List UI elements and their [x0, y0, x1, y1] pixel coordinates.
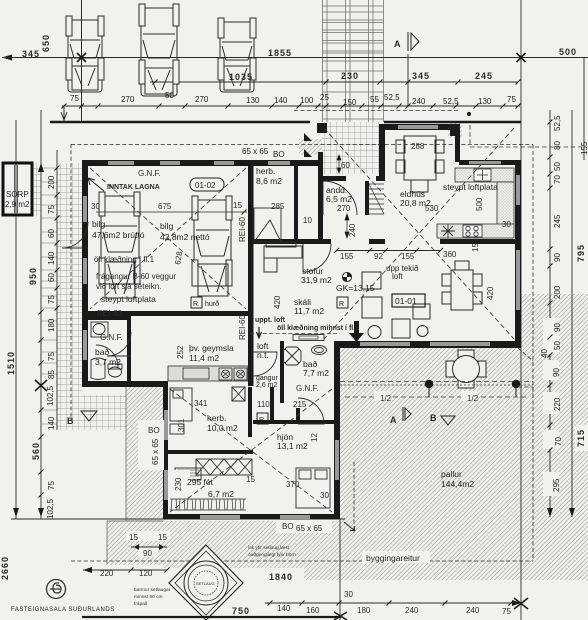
svg-text:G.N.F.: G.N.F.: [296, 384, 319, 393]
svg-text:SETLAUG: SETLAUG: [196, 581, 215, 586]
pergola beam dashed lines on pallur: [340, 382, 533, 398]
bottom dim lines: [82, 616, 341, 618]
GK datum circle icon: [342, 272, 351, 281]
dim line y106: [62, 105, 520, 107]
svg-text:75: 75: [47, 481, 56, 490]
svg-text:bilg: bilg: [92, 219, 106, 229]
svg-text:3,7 m2: 3,7 m2: [95, 357, 121, 367]
svg-text:50: 50: [553, 162, 562, 171]
andd-skali divider: [294, 239, 331, 244]
east wall: [515, 160, 521, 345]
svg-text:65 x 65: 65 x 65: [151, 438, 160, 465]
FS logo: [47, 580, 66, 599]
armchairs + tables right of stofa: [362, 272, 430, 339]
svg-text:REI-60: REI-60: [238, 315, 247, 340]
car 2: [139, 4, 179, 96]
dashed corner SE: [518, 387, 533, 400]
svg-text:R: R: [259, 417, 264, 424]
svg-text:INNTAK LAGNA: INNTAK LAGNA: [107, 184, 160, 191]
porch west wall: [318, 152, 323, 181]
hurd label: [191, 297, 219, 308]
porch south wall: [318, 176, 346, 181]
svg-text:102,5: 102,5: [46, 498, 55, 519]
svg-text:öll klæðning mihnst í fl.2: öll klæðning mihnst í fl.2: [277, 324, 359, 332]
shaft X box: [232, 387, 245, 401]
windows in walls (gray): [83, 125, 520, 519]
svg-text:341: 341: [194, 399, 208, 408]
porch black arrows: [304, 133, 312, 141]
svg-text:288: 288: [411, 142, 425, 151]
svg-text:6,7 m2: 6,7 m2: [208, 489, 234, 499]
svg-text:240: 240: [348, 223, 357, 237]
wall between porch and dining: [379, 124, 385, 181]
diagonal arrow SW pallur corner: [344, 522, 355, 531]
svg-text:öll klæðning í fl.1: öll klæðning í fl.1: [94, 255, 155, 264]
REI-60 firewall: [248, 160, 254, 386]
pergola trellis strip top: [322, 0, 384, 122]
svg-text:lok yfir setlaug,læst: lok yfir setlaug,læst: [248, 545, 290, 551]
dim line y82: [150, 81, 518, 83]
svg-text:65 x 65: 65 x 65: [242, 147, 269, 156]
svg-text:12: 12: [310, 433, 319, 442]
svg-text:15: 15: [246, 475, 255, 484]
svg-text:gangur: gangur: [256, 375, 278, 382]
svg-text:70: 70: [554, 437, 563, 446]
svg-text:bilg: bilg: [160, 221, 174, 231]
svg-text:270: 270: [121, 95, 135, 104]
svg-text:155: 155: [340, 252, 354, 261]
svg-text:13,1 m2: 13,1 m2: [277, 441, 308, 451]
svg-text:252: 252: [176, 345, 185, 359]
svg-text:6,5 m2: 6,5 m2: [326, 194, 352, 204]
arrow down to ground line: [61, 107, 67, 120]
hatch strip left of bedroom block: [126, 387, 167, 521]
svg-text:uppt. loft: uppt. loft: [255, 317, 286, 324]
svg-text:75: 75: [47, 295, 56, 304]
svg-text:60: 60: [47, 229, 56, 238]
svg-text:140: 140: [47, 416, 56, 430]
left site vlines: [15, 120, 17, 519]
svg-text:220: 220: [553, 397, 562, 411]
skali sideboard: [293, 335, 324, 341]
svg-text:R: R: [339, 301, 344, 308]
right edge line x584: [583, 57, 585, 160]
svg-text:1840: 1840: [269, 572, 293, 582]
section dashed vertical x354 bottom: [353, 462, 355, 533]
svg-text:1/2: 1/2: [467, 394, 479, 403]
garage inner dim line: [96, 211, 247, 213]
svg-text:G.N.F.: G.N.F.: [100, 333, 123, 342]
bedroom block interior: [248, 387, 252, 437]
bottom ground line y519: [11, 518, 345, 520]
herb 8.6 closet: [254, 208, 281, 242]
svg-text:hurð: hurð: [205, 300, 219, 308]
svg-text:110: 110: [257, 400, 270, 409]
south wall left (mid block): [82, 381, 168, 387]
svg-text:420: 420: [486, 286, 495, 300]
site line vertical x81: [81, 0, 83, 122]
svg-text:795: 795: [576, 244, 586, 262]
dimension tick marks: [39, 80, 553, 606]
garage car right: [192, 196, 232, 296]
svg-text:270: 270: [337, 204, 351, 213]
svg-text:15: 15: [233, 201, 242, 210]
kitchen window band: [469, 161, 501, 164]
svg-text:230: 230: [174, 477, 183, 491]
svg-text:herb.: herb.: [256, 166, 275, 176]
svg-text:75: 75: [70, 94, 79, 103]
svg-text:FASTEIGNASALA SUÐURLANDS: FASTEIGNASALA SUÐURLANDS: [11, 607, 115, 613]
svg-text:295: 295: [552, 478, 561, 492]
svg-text:barmur setlaugar: barmur setlaugar: [134, 587, 171, 593]
andd west wall: [318, 181, 323, 239]
dashed roof corner NE: [470, 125, 584, 147]
car 3: [218, 18, 256, 92]
svg-text:345: 345: [22, 49, 40, 59]
bath 3.7 fixtures: [91, 322, 122, 380]
dresser herb10: [175, 468, 201, 480]
svg-text:240: 240: [412, 97, 426, 106]
svg-text:140: 140: [274, 96, 288, 105]
svg-text:11,4 m2: 11,4 m2: [189, 353, 219, 363]
svg-text:75: 75: [502, 607, 511, 616]
vertical A-section line x408: [407, 54, 409, 106]
pallur hatch right band: [521, 294, 588, 580]
svg-text:frágangur B-60 veggur: frágangur B-60 veggur: [96, 272, 176, 281]
svg-text:240: 240: [405, 606, 419, 615]
right dim col x550: [549, 110, 551, 517]
svg-text:30: 30: [320, 491, 329, 500]
down arrows at line ends: [13, 163, 575, 606]
svg-text:loft: loft: [392, 272, 403, 281]
svg-text:140: 140: [47, 251, 56, 265]
bottom hatch band under bedrooms: [107, 521, 339, 568]
garage car left: [99, 192, 140, 298]
60 arrow in porch: [337, 155, 341, 173]
svg-text:11,7 m2: 11,7 m2: [294, 306, 324, 316]
svg-text:295 fót: 295 fót: [187, 477, 214, 487]
svg-text:140: 140: [277, 604, 291, 613]
hjon bed: [296, 468, 330, 508]
svg-text:1510: 1510: [6, 351, 16, 375]
vertical line x521 full height: [520, 0, 522, 620]
svg-text:715: 715: [576, 429, 586, 447]
svg-text:BO: BO: [282, 522, 294, 531]
svg-text:90: 90: [143, 549, 152, 558]
right dim col x572: [571, 110, 573, 517]
svg-text:GK=13,15: GK=13,15: [336, 283, 375, 293]
svg-text:500: 500: [475, 197, 484, 211]
svg-text:245: 245: [475, 71, 493, 81]
washer band: [168, 366, 248, 381]
north wall right (dining): [379, 124, 456, 130]
label halos on hatch: [94, 318, 588, 582]
svg-text:215: 215: [293, 400, 307, 409]
svg-text:240: 240: [466, 606, 480, 615]
svg-text:2,6 m2: 2,6 m2: [256, 382, 278, 389]
bedroom block X: [170, 389, 332, 512]
corner sofa stofa: [264, 242, 302, 272]
bad 7.7 fixtures: [283, 346, 327, 366]
kitchen north wall: [459, 160, 521, 165]
svg-text:100: 100: [300, 96, 314, 105]
svg-text:90: 90: [553, 323, 562, 332]
svg-text:8,6 m2: 8,6 m2: [256, 176, 282, 186]
svg-text:245: 245: [553, 214, 562, 228]
svg-text:270: 270: [195, 95, 209, 104]
star symbol in kitchen: [441, 224, 455, 238]
svg-text:70: 70: [553, 175, 562, 184]
north wall left: [82, 160, 322, 166]
svg-text:285: 285: [271, 202, 285, 211]
svg-text:REI-60: REI-60: [238, 217, 247, 242]
svg-text:750: 750: [232, 606, 250, 616]
svg-text:30: 30: [91, 202, 100, 211]
svg-text:80: 80: [553, 141, 562, 150]
svg-text:bað: bað: [95, 347, 109, 357]
left arrow on 345 dim: [2, 55, 12, 61]
svg-text:2660: 2660: [0, 556, 10, 580]
svg-text:30: 30: [344, 590, 353, 599]
svg-text:1035: 1035: [229, 72, 253, 82]
svg-text:1/2: 1/2: [380, 394, 392, 403]
svg-text:þv. geymsla: þv. geymsla: [189, 343, 234, 353]
svg-text:B: B: [430, 413, 438, 423]
svg-text:150: 150: [343, 98, 357, 107]
svg-text:200: 200: [47, 175, 56, 189]
deck round table: [446, 350, 486, 388]
svg-text:herb.: herb.: [207, 413, 226, 423]
svg-text:420: 420: [273, 295, 282, 309]
svg-text:15: 15: [158, 533, 167, 542]
svg-text:92: 92: [374, 252, 383, 261]
svg-text:560: 560: [31, 442, 41, 460]
stove circles: [463, 225, 482, 237]
car 1: [66, 16, 104, 92]
door arcs: [62, 150, 384, 456]
big X marks on main lines: [35, 53, 528, 620]
roof slab hatch NW of porch: [299, 139, 323, 155]
NE corner wall hatch: [448, 122, 462, 138]
240 arrow in andd: [345, 214, 349, 238]
SW block east wall: [334, 345, 340, 519]
stairs: [369, 184, 384, 214]
svg-text:BO: BO: [148, 426, 160, 435]
svg-text:90: 90: [553, 253, 562, 262]
svg-text:370: 370: [286, 480, 300, 489]
svg-text:01-01: 01-01: [395, 296, 417, 306]
svg-text:25: 25: [320, 93, 329, 102]
svg-text:60: 60: [341, 161, 350, 170]
herb 10.0 bed: [170, 388, 192, 434]
svg-text:óaðgengilegt fyrir börn: óaðgengilegt fyrir börn: [248, 551, 296, 558]
stofa dim line 155-92-155: [336, 250, 440, 252]
svg-text:50: 50: [553, 341, 562, 350]
pergola posts (black dots): [425, 380, 433, 388]
svg-text:steypt loftplata: steypt loftplata: [101, 294, 156, 304]
svg-text:130: 130: [246, 96, 260, 105]
svg-text:BO: BO: [273, 150, 285, 159]
thick ground line y122: [50, 121, 310, 123]
svg-text:90: 90: [552, 368, 561, 377]
garage bottom wall: [88, 311, 248, 316]
svg-text:230: 230: [341, 71, 359, 81]
NE corner piece: [450, 124, 460, 136]
south wall right: [334, 341, 521, 348]
svg-text:A: A: [390, 415, 398, 425]
svg-text:REI-60: REI-60: [97, 309, 122, 318]
svg-text:650: 650: [41, 34, 51, 52]
svg-text:50: 50: [165, 91, 174, 100]
svg-text:52,5: 52,5: [553, 115, 562, 131]
svg-text:steypt loftplata: steypt loftplata: [443, 182, 498, 192]
svg-text:85: 85: [47, 370, 56, 379]
dot at x322 y128: [317, 123, 327, 133]
pallur deck hatch (big, bottom right): [339, 345, 521, 580]
svg-text:7,7 m2: 7,7 m2: [303, 368, 329, 378]
left pavement grid strip: [57, 163, 82, 397]
svg-text:31,9 m2: 31,9 m2: [301, 275, 332, 285]
svg-text:47,6m2 brúttó: 47,6m2 brúttó: [92, 230, 145, 240]
west wall: [82, 160, 88, 386]
svg-text:A: A: [394, 39, 402, 49]
svg-text:530: 530: [425, 204, 439, 213]
svg-text:200: 200: [553, 285, 562, 299]
dining table 288 room: [396, 136, 444, 192]
bath1 walls: [127, 316, 131, 381]
herb8 east wall: [294, 166, 298, 244]
fot closet X boxes: [196, 459, 252, 475]
svg-text:42,8m2 nettó: 42,8m2 nettó: [160, 232, 210, 242]
svg-text:155: 155: [401, 252, 415, 261]
svg-text:frápall: frápall: [134, 601, 147, 607]
sink: [474, 169, 491, 181]
entrance porch grid: [322, 122, 384, 174]
svg-text:B: B: [67, 416, 75, 426]
svg-text:01-02: 01-02: [195, 181, 216, 190]
svg-text:15: 15: [129, 533, 138, 542]
hanging rail fringe: [170, 499, 246, 510]
hatch boundary lines: [125, 387, 127, 521]
svg-text:1855: 1855: [268, 48, 292, 58]
SW block south wall: [163, 514, 340, 519]
svg-text:pallur: pallur: [441, 469, 462, 479]
kitchen low wall: [440, 239, 515, 244]
svg-text:55: 55: [370, 95, 379, 104]
garage X: [90, 168, 246, 309]
svg-text:144,4m2: 144,4m2: [441, 479, 474, 489]
SW pavement grid area: [57, 395, 126, 430]
svg-text:byggingareitur: byggingareitur: [366, 553, 420, 563]
svg-text:G.N.F.: G.N.F.: [138, 169, 161, 178]
svg-text:65 x 65: 65 x 65: [296, 524, 323, 533]
svg-text:2,9 m2: 2,9 m2: [5, 200, 30, 209]
svg-text:130: 130: [478, 97, 492, 106]
entrance arrow (big black): [349, 321, 364, 342]
SW block west wall: [163, 381, 168, 519]
svg-text:950: 950: [28, 267, 38, 285]
dining table SE room: [442, 261, 482, 310]
svg-text:155: 155: [580, 141, 588, 155]
svg-text:10: 10: [303, 216, 312, 225]
svg-text:180: 180: [357, 606, 371, 615]
svg-text:160: 160: [306, 606, 320, 615]
svg-text:10,0 m2: 10,0 m2: [207, 423, 238, 433]
svg-text:500: 500: [559, 47, 577, 57]
svg-text:n.t.: n.t.: [257, 350, 269, 360]
svg-text:60: 60: [47, 273, 56, 282]
svg-text:360: 360: [443, 250, 457, 259]
svg-text:30: 30: [502, 220, 511, 229]
main dim line y57: [2, 57, 588, 59]
hot tub: [169, 545, 243, 620]
svg-text:675: 675: [158, 202, 172, 211]
herb8 bottom wall: [253, 239, 294, 244]
svg-text:15: 15: [471, 243, 480, 252]
svg-text:180: 180: [47, 318, 56, 332]
living/kitchen X: [324, 128, 514, 339]
svg-text:102,5: 102,5: [46, 385, 55, 406]
svg-text:301: 301: [177, 418, 186, 432]
svg-text:75: 75: [47, 205, 56, 214]
svg-text:SORP: SORP: [6, 190, 29, 199]
andd east wall/stairs: [365, 181, 369, 215]
svg-text:75: 75: [507, 95, 516, 104]
svg-text:345: 345: [412, 71, 430, 81]
svg-text:við loft sjá séteikn.: við loft sjá séteikn.: [96, 282, 161, 291]
svg-text:minnst 50 cm: minnst 50 cm: [134, 594, 163, 600]
svg-text:R: R: [193, 301, 198, 308]
svg-text:52,5: 52,5: [384, 93, 400, 102]
kitchen counters: [455, 168, 514, 182]
svg-text:75: 75: [47, 352, 56, 361]
